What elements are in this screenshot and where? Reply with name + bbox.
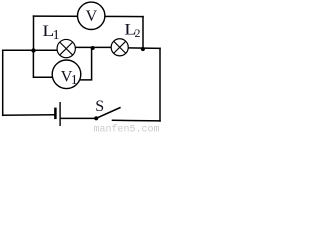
wire V1 branch right	[80, 48, 92, 80]
svg-text:1: 1	[53, 28, 60, 43]
junction node A	[31, 48, 35, 52]
lamp L2	[111, 39, 128, 56]
wire V1 branch left	[33, 51, 52, 78]
battery B1 positive plate	[59, 102, 61, 126]
battery B1 negative plate	[54, 108, 57, 120]
wire top-left vertical	[33, 16, 35, 50]
wire top branch horizontal	[34, 15, 144, 18]
svg-text:V: V	[86, 8, 98, 25]
wire lamp row left segment	[3, 49, 57, 51]
wire left edge	[2, 50, 4, 115]
wire lamp row right segment	[128, 47, 160, 50]
wire lamp row middle segment	[75, 46, 111, 48]
voltmeter V	[78, 2, 105, 29]
svg-text:1: 1	[71, 73, 78, 88]
wire right edge	[159, 48, 161, 121]
wire battery to switch	[61, 117, 97, 119]
junction node between lamps	[91, 46, 95, 50]
junction node B	[141, 47, 145, 51]
switch S blade	[96, 107, 120, 118]
svg-text:2: 2	[135, 26, 141, 40]
label L2	[124, 20, 140, 40]
wire top-right vertical	[142, 17, 144, 49]
wire bottom right segment	[113, 119, 161, 122]
wire bottom left segment	[3, 114, 55, 117]
voltmeter V1	[52, 60, 81, 89]
switch S pivot	[94, 116, 98, 120]
lamp L1	[57, 39, 75, 57]
label L1	[42, 22, 59, 43]
svg-text:S: S	[95, 98, 104, 115]
svg-text:manfen5.com: manfen5.com	[94, 124, 160, 132]
